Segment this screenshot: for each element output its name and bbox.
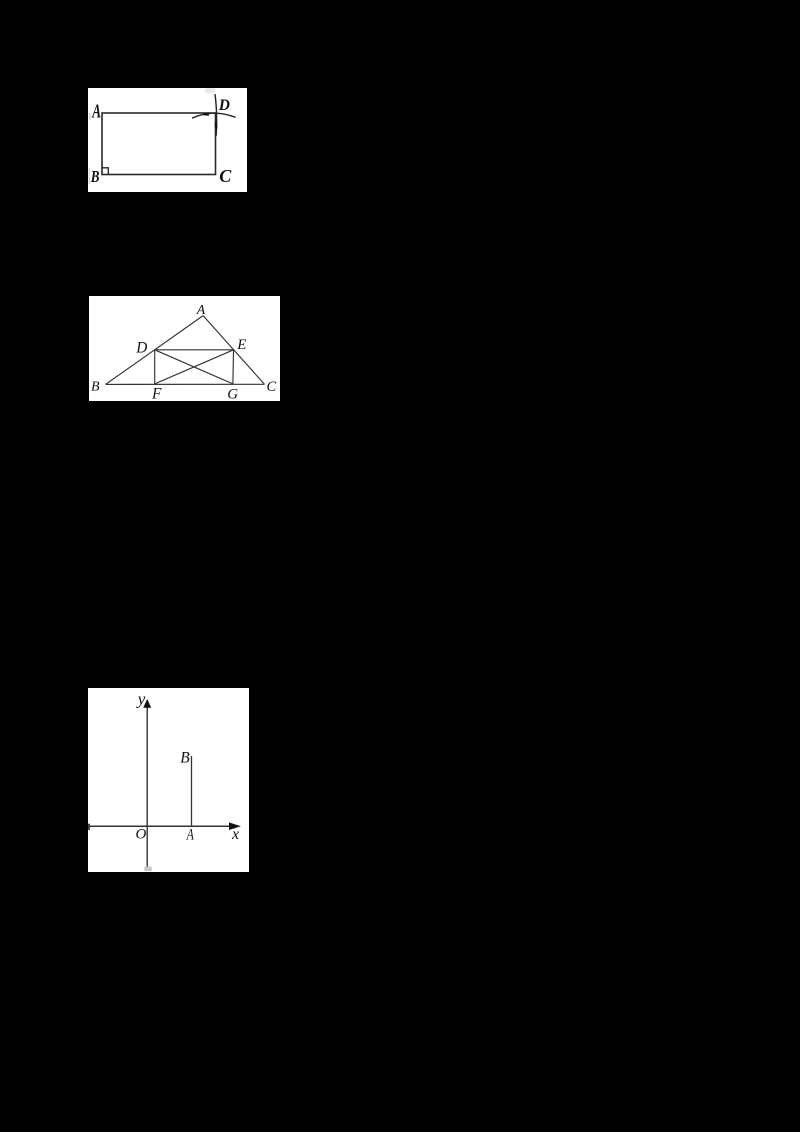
y-axis xyxy=(146,704,148,869)
svg-text:x: x xyxy=(231,826,239,843)
diagonal FE xyxy=(155,350,234,384)
svg-text:D: D xyxy=(218,97,230,114)
figure 3 box: coordinate axes with point A and segment AB xyxy=(88,688,249,872)
segment EG xyxy=(232,350,235,384)
svg-text:A: A xyxy=(91,100,101,122)
svg-text:F: F xyxy=(151,385,162,401)
figure 2 box: triangle ABC with rectangle DEGF xyxy=(89,296,280,401)
svg-text:A: A xyxy=(196,302,206,317)
right angle mark at B xyxy=(102,168,108,175)
left nub of x-axis xyxy=(88,824,90,830)
side BC xyxy=(106,383,265,385)
side AC xyxy=(203,316,264,385)
diagonal DG xyxy=(155,350,233,384)
svg-text:E: E xyxy=(236,337,246,353)
compass arc horizontal through D xyxy=(192,113,236,118)
svg-text:y: y xyxy=(136,689,146,708)
gray blob at y-axis bottom xyxy=(144,867,151,872)
side AB xyxy=(106,316,204,385)
svg-text:C: C xyxy=(267,379,277,395)
x-axis arrowhead xyxy=(229,822,241,830)
segment DE xyxy=(155,349,234,351)
figure 1 box: rectangle ABCD compass construction xyxy=(88,88,247,192)
compass arc vertical through D xyxy=(215,94,217,136)
svg-text:C: C xyxy=(219,166,232,186)
segment DF xyxy=(154,350,156,384)
svg-text:B: B xyxy=(90,167,100,186)
y-axis arrowhead xyxy=(143,699,151,708)
x-axis xyxy=(89,825,236,827)
arc blob lower crossing xyxy=(215,122,218,129)
svg-text:O: O xyxy=(136,826,147,842)
segment from A up to B xyxy=(191,756,193,826)
svg-text:B: B xyxy=(91,380,100,395)
smudge above D xyxy=(205,88,216,94)
scan tick left of A xyxy=(89,113,90,120)
rectangle ABCD xyxy=(102,113,216,175)
svg-text:D: D xyxy=(135,339,147,356)
svg-text:A: A xyxy=(186,827,194,844)
arc blob left of D xyxy=(204,113,210,116)
svg-text:G: G xyxy=(227,386,238,401)
svg-text:B: B xyxy=(180,750,190,767)
scan tick left of B xyxy=(89,168,90,184)
